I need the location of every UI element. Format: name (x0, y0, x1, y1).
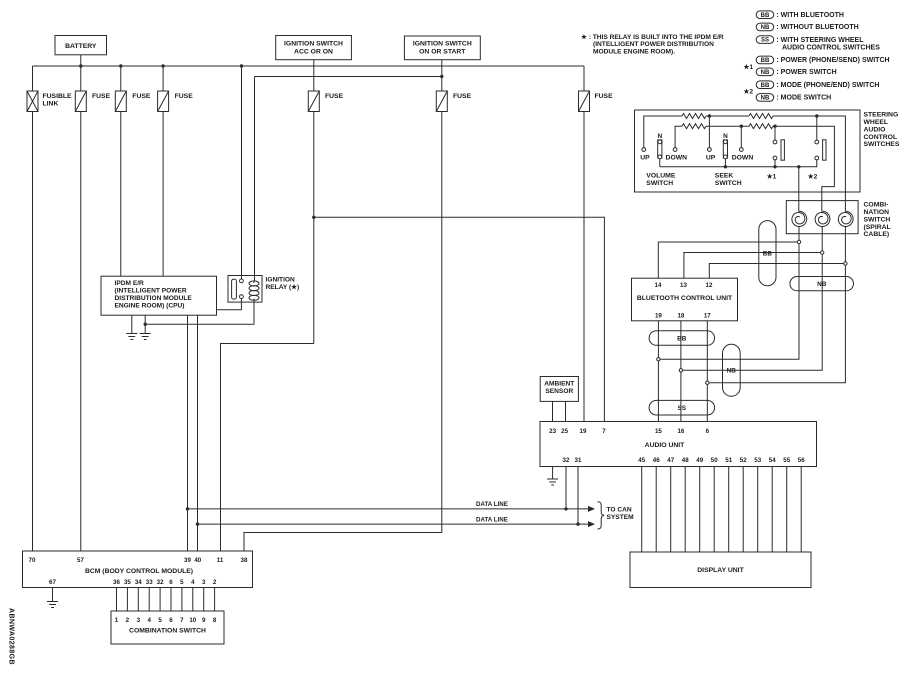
spiral 2 (815, 211, 830, 226)
svg-text:FUSE: FUSE (325, 93, 344, 100)
relay label (266, 276, 300, 291)
wire spiral3 to connector C (709, 226, 845, 383)
svg-text:2: 2 (126, 617, 130, 624)
svg-text:6: 6 (706, 428, 710, 435)
svg-text:ACC OR ON: ACC OR ON (294, 48, 333, 55)
svg-text:7: 7 (602, 428, 606, 435)
svg-text:CONTROL: CONTROL (864, 134, 898, 141)
svg-text:BB: BB (761, 13, 770, 19)
svg-text:BB: BB (761, 58, 770, 64)
svg-text:6: 6 (169, 617, 173, 624)
svg-text:SWITCHES: SWITCHES (864, 141, 900, 148)
volume up contact (642, 148, 646, 152)
svg-text:SENSOR: SENSOR (545, 388, 573, 395)
fusible link (27, 91, 38, 112)
svg-text:14: 14 (655, 282, 662, 289)
svg-text:SS: SS (678, 405, 687, 412)
wire relay coil to ground junction (145, 300, 254, 324)
wire IPDM CAN-L to BCM pin 40 (197, 315, 199, 551)
svg-text:SEEK: SEEK (715, 173, 734, 180)
relay contact top (240, 279, 244, 283)
wire ACC vertical (313, 112, 315, 344)
wire bus to fuse F3 (162, 66, 164, 91)
wire fuse F1 to BCM pin 57 (80, 112, 82, 552)
label star1 (767, 173, 777, 181)
svg-text:WHEEL: WHEEL (864, 119, 889, 126)
wire fusible link to BCM pin 70 (32, 112, 34, 552)
wire fuse F6 to audio pin 19 (583, 112, 585, 422)
wire row2 mid (706, 125, 749, 127)
connector circle B (679, 369, 682, 372)
svg-text:FUSE: FUSE (175, 93, 194, 100)
svg-text:AUDIO UNIT: AUDIO UNIT (645, 442, 685, 449)
arrow data line 2 (588, 521, 595, 527)
svg-text:17: 17 (704, 313, 711, 320)
svg-text:48: 48 (682, 457, 689, 464)
svg-text:COMBINATION SWITCH: COMBINATION SWITCH (129, 627, 206, 634)
wire fuse F3 to IPDM (162, 112, 164, 277)
svg-text:NB: NB (761, 70, 770, 76)
label seek switch (715, 173, 742, 188)
wire IPDM ground 2 (144, 315, 146, 333)
wire row1 left (644, 116, 682, 148)
label data line 1 (476, 501, 508, 508)
svg-text:13: 13 (680, 282, 687, 289)
svg-text:47: 47 (667, 457, 674, 464)
wire seek-down drop (740, 126, 742, 147)
svg-text:VOLUME: VOLUME (646, 173, 676, 180)
svg-text:DISPLAY UNIT: DISPLAY UNIT (697, 567, 744, 574)
wire seek-up drop (708, 116, 710, 148)
svg-text:ENGINE ROOM) (CPU): ENGINE ROOM) (CPU) (115, 303, 185, 310)
svg-text:52: 52 (740, 457, 747, 464)
svg-text:18: 18 (677, 313, 684, 320)
svg-text:UP: UP (640, 155, 650, 162)
junction dots on battery bus (79, 64, 243, 67)
svg-text:: MODE SWITCH: : MODE SWITCH (776, 95, 831, 102)
ground IPDM 2 (140, 334, 151, 340)
wire BCU pin18 to audio pin16 (680, 321, 682, 422)
svg-text:ON OR START: ON OR START (419, 49, 466, 56)
svg-text:: POWER SWITCH: : POWER SWITCH (776, 69, 836, 76)
svg-text:NATION: NATION (864, 209, 890, 216)
svg-text:BB: BB (761, 83, 770, 89)
ground BCM (47, 602, 58, 608)
svg-text:MODULE ENGINE ROOM).: MODULE ENGINE ROOM). (593, 49, 675, 56)
capsule NB vertical (723, 344, 741, 396)
legend row NB 2 (756, 23, 859, 31)
svg-text:32: 32 (563, 457, 570, 464)
wire bus to fuse F2 (120, 66, 122, 91)
wire through NB horizontal capsule (799, 277, 845, 291)
svg-text:19: 19 (655, 313, 662, 320)
node data line 1 audio (564, 507, 567, 510)
svg-text:4: 4 (191, 579, 195, 586)
svg-text:34: 34 (135, 579, 142, 586)
svg-text:6: 6 (169, 579, 173, 586)
wires BCM to combination switch (117, 588, 215, 612)
svg-text:49: 49 (696, 457, 703, 464)
svg-text:11: 11 (217, 557, 224, 564)
svg-text:IGNITION SWITCH: IGNITION SWITCH (413, 41, 472, 48)
svg-text:35: 35 (124, 579, 131, 586)
spiral cable label (864, 202, 891, 239)
svg-text:12: 12 (706, 282, 713, 289)
wire audio ground (552, 467, 554, 480)
brace to CAN (598, 502, 605, 529)
svg-text:33: 33 (146, 579, 153, 586)
svg-text:BB: BB (677, 336, 687, 343)
data line 2 (198, 523, 589, 525)
svg-text:UP: UP (706, 155, 716, 162)
wire audio pin 31 to data line (577, 467, 579, 525)
wire row2 right to spiral 2 (773, 126, 834, 211)
node row2 star1 (773, 125, 776, 128)
steering common bus (660, 160, 817, 167)
label DOWN seek (732, 155, 754, 162)
label star2 (808, 173, 818, 181)
svg-text:DISTRIBUTION MODULE: DISTRIBUTION MODULE (115, 295, 193, 302)
svg-text:STEERING: STEERING (864, 112, 899, 119)
wire row1 mid (706, 115, 749, 117)
connector circle spiral1-BB (797, 240, 800, 243)
svg-text:15: 15 (655, 428, 662, 435)
wire fuse F5 to BCM pin 38 (244, 112, 442, 552)
svg-text:45: 45 (638, 457, 645, 464)
svg-text:10: 10 (189, 617, 196, 624)
resistor R4 row2 (749, 124, 773, 129)
svg-text:NB: NB (761, 25, 770, 31)
wire row2 left (675, 126, 682, 147)
fuse F5 (ON) (436, 91, 447, 112)
label data line 2 (476, 516, 508, 523)
node data line 2 audio (576, 522, 579, 525)
fuse F4 (ACC) (308, 91, 319, 112)
svg-text:RELAY (★): RELAY (★) (266, 283, 300, 291)
figure id vertical text (8, 608, 15, 665)
svg-text:23: 23 (549, 428, 556, 435)
fuse F3 label (175, 93, 194, 100)
svg-text:BCM (BODY CONTROL MODULE): BCM (BODY CONTROL MODULE) (85, 568, 193, 575)
battery bus (33, 65, 585, 67)
svg-text:57: 57 (77, 557, 84, 564)
svg-text:N: N (657, 133, 662, 140)
svg-text:1: 1 (115, 617, 119, 624)
svg-text:ABNWA0288GB: ABNWA0288GB (8, 608, 15, 665)
wire ambient sensor pin 23 (552, 401, 554, 421)
node coil return junction (144, 323, 147, 326)
svg-text:3: 3 (137, 617, 141, 624)
svg-text:46: 46 (653, 457, 660, 464)
wire spiral2 to connector B (683, 226, 823, 370)
node data line 1 BCM (186, 507, 189, 510)
svg-text:FUSE: FUSE (132, 93, 151, 100)
wire BCU pin17 to audio pin6 (706, 321, 708, 422)
svg-text:COMBI-: COMBI- (864, 202, 889, 209)
wire spiral1 to connector A (660, 226, 799, 359)
svg-text:(INTELLIGENT POWER: (INTELLIGENT POWER (115, 288, 187, 295)
svg-text:50: 50 (711, 457, 718, 464)
svg-text:★ : THIS RELAY IS BUILT INTO T: ★ : THIS RELAY IS BUILT INTO THE IPDM E/… (581, 33, 724, 41)
legend SS second line (782, 44, 880, 51)
label UP seek (706, 155, 716, 162)
steering wheel audio control switches box (635, 110, 861, 192)
svg-text:: POWER (PHONE/SEND) SWITCH: : POWER (PHONE/SEND) SWITCH (776, 57, 889, 64)
legend row NB 7 (756, 94, 831, 102)
node ACC branch (312, 216, 315, 219)
wire BCU pin14 BB line (658, 242, 797, 278)
fusible link label (43, 93, 73, 108)
ignition bus to relay coil (255, 76, 442, 78)
node ON bus junction (440, 75, 443, 78)
svg-text:39: 39 (184, 557, 191, 564)
svg-text:DATA LINE: DATA LINE (476, 516, 508, 523)
fuse F1 (75, 91, 86, 112)
wire bus to fuse F1 (80, 66, 82, 91)
connector circle C (706, 381, 709, 384)
legend star1 (744, 63, 754, 71)
legend row SS 3 (756, 36, 864, 44)
svg-text:40: 40 (194, 557, 201, 564)
wire IPDM CAN-H to BCM pin 39 (187, 315, 189, 551)
fuse F3 (158, 91, 169, 112)
wire bus to relay contact (241, 66, 243, 279)
svg-text:(INTELLIGENT POWER DISTRIBUTIO: (INTELLIGENT POWER DISTRIBUTION (593, 41, 714, 48)
wire battery bus to fuse F6 (583, 66, 585, 91)
ignition switch ON box (404, 36, 480, 60)
wire relay contact to IPDM (217, 299, 242, 310)
legend star2 (744, 87, 754, 95)
svg-text:TO CAN: TO CAN (607, 507, 632, 514)
ignition relay box (228, 276, 262, 303)
svg-text:IGNITION SWITCH: IGNITION SWITCH (284, 40, 343, 47)
relay note (581, 33, 724, 56)
node row2 seek-down (740, 125, 743, 128)
seek up contact (708, 148, 712, 152)
wire row1 right to spiral 3 (773, 116, 845, 212)
BCM box (23, 551, 253, 588)
svg-text:SYSTEM: SYSTEM (607, 514, 635, 521)
resistor R3 row2 (682, 124, 706, 129)
svg-text:5: 5 (158, 617, 162, 624)
steering box label (864, 112, 900, 149)
seek N switch (723, 133, 728, 167)
label volume switch (646, 173, 676, 188)
svg-text:36: 36 (113, 579, 120, 586)
capsule BB horizontal (649, 331, 715, 346)
capsule SS horizontal (649, 400, 715, 415)
svg-text:FUSE: FUSE (92, 93, 111, 100)
seek down contact (739, 148, 743, 152)
label UP volume (640, 155, 650, 162)
svg-text:32: 32 (157, 579, 164, 586)
svg-text:19: 19 (580, 428, 587, 435)
svg-text:N: N (723, 133, 728, 140)
volume down contact (673, 148, 677, 152)
node bus seek (724, 165, 727, 168)
spiral 1 (792, 211, 807, 226)
ignition switch ACC box (276, 36, 352, 60)
battery (55, 36, 107, 55)
svg-text:5: 5 (180, 579, 184, 586)
svg-text:IGNITION: IGNITION (266, 276, 296, 283)
node bus spiral drop (797, 165, 800, 168)
svg-text:DOWN: DOWN (732, 155, 754, 162)
relay contact bottom (240, 295, 244, 299)
svg-text:2: 2 (213, 579, 217, 586)
node row1 star2 (815, 114, 818, 117)
volume N switch (657, 133, 662, 167)
resistor R1 row1 (682, 114, 706, 119)
wire BCU pin13 BB line (684, 253, 821, 279)
IPDM E/R box (101, 276, 217, 315)
svg-text:CABLE): CABLE) (864, 231, 890, 238)
node bus star1 (773, 165, 776, 168)
legend row BB 4 (756, 56, 889, 64)
wire ACC switch to fuse F4 (313, 60, 315, 91)
svg-text:DOWN: DOWN (666, 155, 688, 162)
svg-text:51: 51 (725, 457, 732, 464)
svg-text:53: 53 (754, 457, 761, 464)
svg-text:FUSE: FUSE (595, 93, 614, 100)
wire battery to bus (80, 55, 82, 66)
fuse F1 label (92, 93, 111, 100)
wire ignition bus down to relay coil (254, 77, 256, 282)
svg-text:★1: ★1 (767, 173, 777, 181)
svg-text:: WITH STEERING WHEEL: : WITH STEERING WHEEL (776, 37, 864, 44)
svg-text:FUSIBLE: FUSIBLE (43, 93, 73, 100)
wire BCU pin19 to audio pin15 (657, 321, 659, 422)
wire through BB horizontal capsule (658, 331, 707, 346)
svg-text:BATTERY: BATTERY (65, 43, 97, 50)
wire bus to spiral 1 (798, 167, 800, 212)
wire ambient sensor pin 25 (565, 401, 567, 421)
svg-text:BB: BB (763, 251, 773, 258)
relay switch bar (232, 279, 237, 299)
legend row BB 1 (756, 11, 844, 19)
audio unit box (540, 422, 817, 467)
ground audio unit (547, 479, 558, 485)
svg-text:AUDIO: AUDIO (864, 126, 886, 133)
label to CAN system (607, 507, 635, 521)
resistor R2 row1 (749, 114, 773, 119)
wire through SS capsule (658, 400, 707, 415)
connector circle spiral2-BB (821, 251, 824, 254)
switch star1 (773, 126, 784, 167)
svg-text:★1: ★1 (744, 63, 754, 71)
svg-text:SWITCH: SWITCH (715, 180, 742, 187)
switch star2 (815, 116, 826, 160)
wires audio to display unit (642, 467, 802, 553)
svg-text:38: 38 (241, 557, 248, 564)
svg-text:BLUETOOTH CONTROL UNIT: BLUETOOTH CONTROL UNIT (637, 295, 733, 302)
svg-text:LINK: LINK (43, 101, 59, 108)
wire ON switch down (441, 60, 443, 91)
svg-text:NB: NB (761, 96, 770, 102)
fuse F6 label (595, 93, 614, 100)
arrow data line 1 (588, 506, 595, 512)
wire fuse F2 to IPDM (120, 112, 122, 277)
fuse F6 (audio BAT) (579, 91, 590, 112)
svg-text:54: 54 (769, 457, 776, 464)
node data line 2 BCM (196, 522, 199, 525)
svg-text:(SPIRAL: (SPIRAL (864, 224, 891, 231)
data line 1 (188, 508, 589, 510)
fuse F4 label (325, 93, 344, 100)
svg-text:56: 56 (798, 457, 805, 464)
wire BCU pin12 BB line (709, 264, 843, 279)
svg-text:NB: NB (727, 368, 737, 375)
svg-text:AUDIO CONTROL SWITCHES: AUDIO CONTROL SWITCHES (782, 44, 880, 51)
svg-text:IPDM E/R: IPDM E/R (115, 280, 145, 287)
svg-text:67: 67 (49, 579, 56, 586)
wire IPDM ground 1 (131, 315, 133, 333)
bluetooth control unit box (632, 278, 738, 321)
svg-text:FUSE: FUSE (453, 93, 472, 100)
svg-text:9: 9 (202, 617, 206, 624)
svg-text:8: 8 (213, 617, 217, 624)
label DOWN volume (666, 155, 688, 162)
svg-text:SS: SS (761, 38, 769, 44)
svg-text:SWITCH: SWITCH (646, 180, 673, 187)
svg-text:55: 55 (783, 457, 790, 464)
legend row NB 5 (756, 68, 836, 76)
capsule BB vertical (759, 221, 776, 286)
capsule NB horizontal under spiral (790, 277, 854, 291)
svg-text:3: 3 (202, 579, 206, 586)
wire BCM ground (52, 588, 54, 602)
svg-text:AMBIENT: AMBIENT (544, 381, 574, 388)
wire audio pin 32 to data line (565, 467, 567, 509)
svg-text:25: 25 (561, 428, 568, 435)
svg-text:DATA LINE: DATA LINE (476, 501, 508, 508)
fuse F5 label (453, 93, 472, 100)
svg-text:70: 70 (29, 557, 36, 564)
wire bus to fusible link (32, 66, 34, 91)
fuse F2 label (132, 93, 151, 100)
svg-text:16: 16 (677, 428, 684, 435)
combination switch box (111, 611, 224, 644)
ground IPDM 1 (126, 334, 137, 340)
svg-text:SWITCH: SWITCH (864, 216, 891, 223)
svg-text:: WITH BLUETOOTH: : WITH BLUETOOTH (776, 12, 844, 19)
svg-text:31: 31 (575, 457, 582, 464)
ambient sensor box (540, 377, 578, 402)
connector circle A (657, 358, 660, 361)
svg-text:7: 7 (180, 617, 184, 624)
svg-text:: WITHOUT BLUETOOTH: : WITHOUT BLUETOOTH (776, 24, 858, 31)
svg-text:★2: ★2 (744, 87, 754, 95)
wire through BB vertical capsule (658, 242, 843, 264)
wire ACC to audio unit pin 7 (314, 217, 605, 421)
wire through NB vertical capsule (723, 359, 741, 383)
combination switch spiral cable box (786, 201, 858, 234)
svg-text:: MODE (PHONE/END) SWITCH: : MODE (PHONE/END) SWITCH (776, 82, 879, 89)
legend row BB 6 (756, 81, 879, 89)
wire ACC to BCM pin 11 (221, 344, 314, 552)
svg-text:4: 4 (147, 617, 151, 624)
connector circle spiral3-BB (844, 262, 847, 265)
spiral 3 (838, 211, 853, 226)
display unit box (630, 552, 811, 588)
fuse F2 (115, 91, 126, 112)
svg-text:★2: ★2 (808, 173, 818, 181)
node row1 seek-up (708, 114, 711, 117)
relay coil (249, 281, 259, 301)
